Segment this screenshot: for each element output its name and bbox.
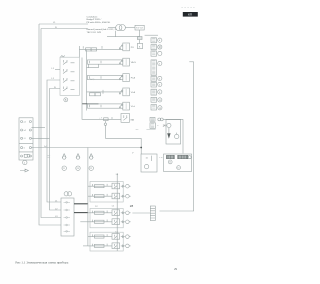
wire transformer to tag <box>125 27 135 29</box>
icon C1 <box>126 235 130 239</box>
wire PCB dark 1 <box>74 203 88 205</box>
icon P2 <box>158 45 162 49</box>
transformer T1 <box>116 25 122 31</box>
icon P3 <box>158 51 162 55</box>
svg-text:VA %: VA % <box>131 61 136 64</box>
relay rows bottom <box>80 148 133 252</box>
connector P6 <box>151 82 157 87</box>
wire row A2 <box>88 195 112 197</box>
wire PCB dark 2 <box>74 212 88 214</box>
right connectors column <box>145 35 166 130</box>
pin tick row6 <box>111 117 113 119</box>
svg-text:TEC FCO 1VR: TEC FCO 1VR <box>87 32 102 34</box>
connector P10 <box>150 117 155 121</box>
wire row C2 <box>88 245 112 247</box>
pin tick B1 a <box>92 211 94 213</box>
switch S1 <box>119 43 129 51</box>
pin tick A2 a <box>92 194 94 196</box>
electrode E2 <box>175 134 179 138</box>
svg-text:VLd: VLd <box>131 106 136 108</box>
icon P5 <box>158 76 162 80</box>
wire L1 top horizontal <box>39 23 88 25</box>
wire junction drop <box>104 121 106 139</box>
switch S3 <box>119 74 129 82</box>
switch C1 <box>112 234 120 240</box>
node junction circle <box>104 123 106 125</box>
pin tick row3 <box>90 76 102 79</box>
wire bus relay left <box>87 148 89 247</box>
selector stub L1 <box>55 68 60 70</box>
svg-text:12: 12 <box>95 206 98 208</box>
arrow symbol below X1 <box>20 169 28 172</box>
node junction dot <box>140 147 142 149</box>
switch S5 <box>119 102 129 110</box>
icon P1 <box>158 38 162 42</box>
svg-text:L1: L1 <box>52 68 55 70</box>
svg-text:PLA: PLA <box>131 77 136 80</box>
arrow glyph C1 <box>121 236 125 238</box>
pin tick C1 a <box>92 234 94 236</box>
pin tick B2 a <box>92 220 94 222</box>
connector P3 <box>151 51 157 56</box>
svg-text:VLA: VLA <box>131 91 136 94</box>
coil C2 <box>94 244 104 247</box>
node pair above PCB <box>64 192 68 196</box>
header dots <box>182 7 195 9</box>
pin tick row1 a <box>82 46 84 48</box>
pin tick A2 b <box>106 194 108 196</box>
connector P5 <box>151 76 157 81</box>
wire B to CN <box>132 212 150 214</box>
wire bus top link <box>189 61 193 63</box>
switch B1 <box>112 210 120 216</box>
switch A2 <box>112 193 120 199</box>
connector P9 <box>151 105 157 110</box>
wire tag down <box>139 30 141 37</box>
svg-text:B: B <box>139 46 141 48</box>
svg-text:MA: MA <box>131 118 135 121</box>
control box K0 <box>141 154 157 172</box>
pin tick A1 a <box>92 184 94 186</box>
pin tick row2 <box>90 61 102 64</box>
wire bus from X1 <box>31 147 141 149</box>
terminal box ignition TR <box>164 154 192 171</box>
pin tick C1 b <box>106 234 108 236</box>
wire riser row6 <box>82 58 121 120</box>
coil pair row1 <box>86 48 92 51</box>
wire row2 lower <box>87 64 99 68</box>
lower left box PCB <box>61 198 74 236</box>
wire L1 vertical drop <box>39 24 61 225</box>
pin tick C2 b <box>106 244 108 246</box>
resistor row3 <box>88 75 123 79</box>
node A circled <box>64 98 68 102</box>
icon A2 <box>126 194 130 198</box>
sensor chain 3 <box>89 154 93 171</box>
arrow glyph B1 <box>121 212 125 214</box>
wire bus relay right <box>116 174 118 252</box>
icon A1 <box>126 184 130 188</box>
svg-text:PU: PU <box>131 47 134 49</box>
wire to bus <box>105 138 141 154</box>
svg-text:+ =: + = <box>159 157 163 159</box>
wire P10 to TR <box>163 119 183 153</box>
svg-text:Internal (normal) fab. F 87C,: Internal (normal) fab. F 87C, 2k <box>87 28 118 31</box>
svg-text:p1: p1 <box>24 121 27 123</box>
wire N vertical drop <box>41 29 61 218</box>
wire feed B2 left <box>80 221 88 223</box>
svg-text:n.c: n.c <box>136 129 139 131</box>
resistor row5 <box>88 104 123 108</box>
svg-text:Рис 1.1 Электрическая схема п: Рис 1.1 Электрическая схема прибора <box>15 261 68 265</box>
icon P4 <box>158 61 162 65</box>
icon P7 <box>158 90 162 94</box>
svg-text:N 5 V-R: N 5 V-R <box>136 28 144 30</box>
wire row B1 <box>88 212 112 214</box>
electrode E1 <box>167 123 171 127</box>
wire row1 drop to selector <box>78 46 80 57</box>
electrode box EL <box>166 120 181 144</box>
arrow glyph C2 <box>121 245 125 247</box>
wire row A1 <box>88 185 112 187</box>
switch C2 <box>112 243 120 249</box>
coil C1 <box>94 235 104 238</box>
wire row C1 <box>88 236 112 238</box>
switch B2 <box>112 219 120 225</box>
relay box KB <box>90 209 123 228</box>
relay box KA <box>90 182 123 203</box>
icon pair P10 <box>158 118 161 121</box>
box terminal 8 <box>137 44 142 49</box>
switch S6 <box>121 114 130 123</box>
pin tick B1 b <box>106 211 108 213</box>
svg-text:КП: КП <box>188 13 192 17</box>
icon P8 <box>158 98 162 102</box>
wire feed C2 left <box>83 245 88 247</box>
selector switch SW1 <box>60 56 80 96</box>
resistor row6 <box>104 118 109 121</box>
switch S2 <box>119 58 129 66</box>
svg-text:Conduttore: Conduttore <box>87 15 99 18</box>
svg-text:28: 28 <box>130 204 134 208</box>
sensor chain 1 <box>62 154 66 171</box>
wire row5 dark <box>82 103 99 105</box>
wire N top horizontal <box>41 28 88 30</box>
icon P6 <box>158 82 162 86</box>
wire fuse to box8 <box>139 40 141 44</box>
coil B1 <box>94 211 104 214</box>
coil pair row4 <box>90 93 96 96</box>
pin tick B2 b <box>106 220 108 222</box>
icon B2 <box>126 220 130 224</box>
icon B1 <box>126 211 130 215</box>
fuse F1 <box>137 37 142 40</box>
connector strip CN <box>150 206 155 221</box>
arrow glyph A1 <box>121 185 125 187</box>
svg-text:PE with 400Vu, 4500 NL: PE with 400Vu, 4500 NL <box>87 21 112 24</box>
svg-text:1: 1 <box>24 162 26 164</box>
switch A1 <box>112 183 120 189</box>
pin tick C2 a <box>92 244 94 246</box>
svg-text:3x1: 3x1 <box>44 146 47 148</box>
arrow glyph A2 <box>121 195 125 197</box>
selector stub L3 wire down <box>50 89 62 211</box>
svg-text:t3: t3 <box>24 137 27 140</box>
svg-text:b2: b2 <box>24 130 27 132</box>
svg-text:=: = <box>157 125 159 127</box>
wire X1 row2 stub <box>31 127 45 129</box>
node 1 circled below X1 <box>23 160 27 164</box>
connector P1 <box>151 38 157 43</box>
svg-text:L1: L1 <box>112 206 115 208</box>
svg-text:14: 14 <box>163 124 166 128</box>
svg-text:V: V <box>132 153 134 155</box>
wire to P1 <box>145 34 158 36</box>
coil A1 <box>94 185 104 188</box>
svg-text:11: 11 <box>146 158 149 160</box>
labels PCB <box>55 200 58 218</box>
wire gauge marks on risers <box>48 156 51 158</box>
right bus vertical <box>160 62 194 211</box>
wire bus mid <box>86 50 88 111</box>
connector P8 <box>151 97 157 102</box>
connector P2 <box>151 45 157 50</box>
pin tick row4 <box>102 90 104 94</box>
wire below P11 <box>146 129 155 131</box>
left connector X1 <box>19 118 33 160</box>
connector P4 <box>151 60 157 75</box>
pin tick row5 <box>90 105 102 108</box>
wire row1 <box>79 49 122 51</box>
coil B2 <box>94 220 104 223</box>
svg-text:29: 29 <box>174 267 178 271</box>
pin tick row1 b <box>101 46 103 49</box>
wire X1 row3 to risers <box>31 137 49 139</box>
svg-text:BridgeP 230V /: BridgeP 230V / <box>87 18 102 21</box>
selector stub L2 wire down <box>47 80 61 202</box>
badge top right <box>183 12 198 17</box>
tag box Nr5 <box>135 25 144 30</box>
note text block top <box>87 15 118 34</box>
svg-text:L1: L1 <box>116 174 119 176</box>
icon C2 <box>126 244 130 248</box>
coil A2 <box>94 195 104 198</box>
pin tick A1 b <box>106 184 108 186</box>
connector P11 <box>150 123 155 129</box>
connector P7 <box>151 89 157 95</box>
switch S4 <box>119 88 129 96</box>
relay box KC <box>90 232 123 251</box>
icon P9 <box>158 106 162 110</box>
arrow glyph B2 <box>121 221 125 223</box>
wire row B2 <box>88 221 112 223</box>
svg-text:b: b <box>24 148 26 150</box>
sensor chain 2 <box>76 154 80 171</box>
resistor row2 <box>88 60 123 64</box>
wire row4 <box>87 91 123 93</box>
